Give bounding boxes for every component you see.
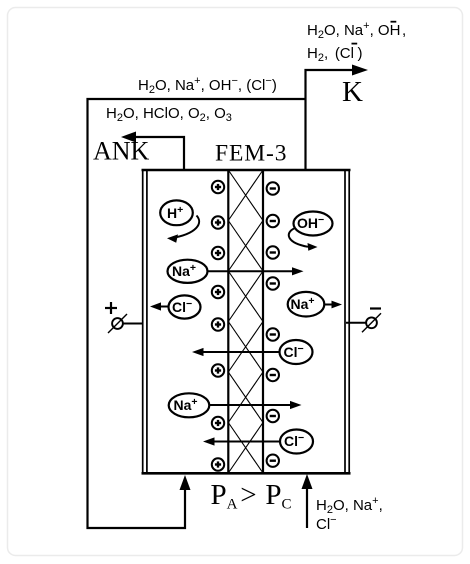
svg-text:ANK: ANK xyxy=(93,137,150,166)
svg-text:): ) xyxy=(358,45,363,62)
svg-text:H2, (Cl: H2, (Cl xyxy=(307,45,354,64)
svg-text:H2O, HClO, O2, O3: H2O, HClO, O2, O3 xyxy=(106,105,232,124)
svg-text:H2O, Na+, OH−, (Cl−): H2O, Na+, OH−, (Cl−) xyxy=(138,75,277,96)
svg-text:,: , xyxy=(402,22,406,39)
svg-text:FEM-3: FEM-3 xyxy=(215,141,287,167)
svg-text:PA > PC: PA > PC xyxy=(211,479,292,513)
svg-text:K: K xyxy=(342,76,363,108)
